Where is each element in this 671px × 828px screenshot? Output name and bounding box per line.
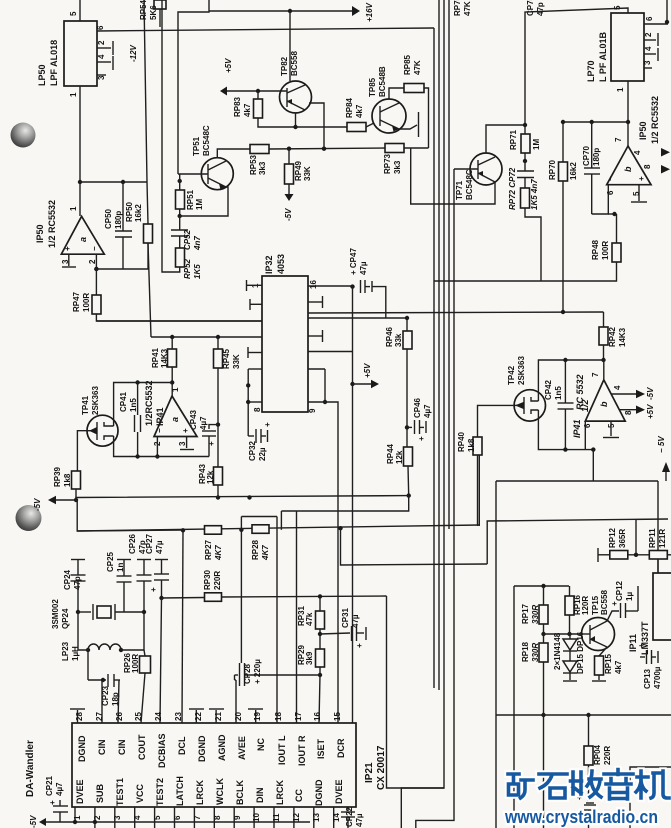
wire IOUTL row <box>241 516 277 518</box>
svg-text:LPF AL018: LPF AL018 <box>49 40 59 86</box>
svg-text:16k2: 16k2 <box>569 162 578 180</box>
svg-text:22µ: 22µ <box>258 447 267 461</box>
resistor RP72 <box>521 188 530 208</box>
supply arrow pin4 IP50b <box>661 148 670 157</box>
resistor RP83 <box>254 99 263 118</box>
pin6 stub LP70 <box>644 23 668 25</box>
wire -5V row <box>56 499 76 501</box>
svg-text:TP82: TP82 <box>280 56 289 76</box>
svg-text:−: − <box>155 428 164 433</box>
svg-text:CX 20017: CX 20017 <box>376 745 387 790</box>
svg-text:BC548B: BC548B <box>378 66 387 97</box>
inductor LP23 1uH <box>86 648 90 652</box>
resistor RP11 <box>649 551 667 560</box>
wire from RP54 down <box>159 9 161 27</box>
svg-text:28: 28 <box>75 712 84 721</box>
wire +16V rail <box>209 10 352 12</box>
svg-text:100R: 100R <box>82 293 91 312</box>
svg-text:TP71: TP71 <box>455 180 464 200</box>
wire IP32 pin11 row to RP46 <box>308 317 407 319</box>
wire pin5 LP50 to top edge <box>79 0 81 21</box>
svg-text:47k: 47k <box>305 612 314 626</box>
resistor RP70 <box>559 162 568 181</box>
transistor TP82 BC558 <box>280 81 312 113</box>
svg-text:10: 10 <box>252 813 261 822</box>
svg-text:LATCH: LATCH <box>175 776 185 806</box>
svg-text:3: 3 <box>97 75 106 80</box>
wire source TP41 <box>114 436 209 457</box>
resistor RP71 <box>521 134 530 153</box>
svg-text:RP18: RP18 <box>521 641 530 662</box>
svg-text:7: 7 <box>591 372 600 377</box>
pin4 wire IP32 left row <box>151 336 262 338</box>
svg-text:TP41: TP41 <box>81 395 90 415</box>
wire rail column left of power section <box>513 586 515 828</box>
wire feedback node IP50b <box>561 121 628 123</box>
svg-text:+5V: +5V <box>363 363 372 378</box>
pin 2 stub LP50 <box>97 47 111 49</box>
svg-text:RP48: RP48 <box>591 239 600 260</box>
wire RP52 bottom to net column <box>162 0 180 272</box>
wire emitter TP82 <box>295 113 297 127</box>
svg-text:CP46: CP46 <box>413 397 422 418</box>
svg-text:BC548C: BC548C <box>202 125 211 156</box>
svg-text:TP42: TP42 <box>507 365 516 385</box>
svg-text:b: b <box>623 166 633 172</box>
svg-text:5: 5 <box>69 11 78 16</box>
svg-text:24: 24 <box>154 712 163 721</box>
svg-text:+: + <box>637 643 646 648</box>
svg-text:RP85: RP85 <box>403 54 412 75</box>
capacitor CP21 4u7 <box>59 812 61 822</box>
svg-text:5: 5 <box>153 815 162 820</box>
svg-text:+: + <box>63 246 72 251</box>
svg-text:CP12: CP12 <box>615 580 624 601</box>
svg-text:+: + <box>637 176 646 181</box>
svg-text:AVEE: AVEE <box>237 736 247 760</box>
op-amp IP41 half a <box>154 396 197 437</box>
op-amp IP41 half b <box>585 380 625 421</box>
svg-text:BC558: BC558 <box>600 590 609 615</box>
svg-text:+5V: +5V <box>224 58 233 73</box>
svg-text:180p: 180p <box>592 148 601 166</box>
svg-text:CP21: CP21 <box>45 775 54 796</box>
svg-text:CP52: CP52 <box>183 229 192 250</box>
wire base TP15 <box>582 633 590 635</box>
wire pin6 LP50 long horizontal to bus <box>97 28 434 31</box>
svg-text:23: 23 <box>174 712 183 721</box>
svg-text:DP15 DP16: DP15 DP16 <box>576 631 585 674</box>
wire base TP71 <box>454 168 478 170</box>
svg-text:17: 17 <box>294 712 303 721</box>
+5V arrow feed TP82 <box>220 87 227 96</box>
watermark chinese characters <box>508 770 669 800</box>
resistor RP15 <box>595 656 604 675</box>
svg-text:RP53: RP53 <box>249 154 258 175</box>
svg-text:CP75: CP75 <box>526 0 535 16</box>
supply arrow pin8 IP41b <box>619 409 636 411</box>
svg-text:1/2 RC5532: 1/2 RC5532 <box>47 200 57 248</box>
resistor RP52 <box>176 248 185 267</box>
svg-text:RP52: RP52 <box>183 258 192 279</box>
capacitor CP46 4u7 <box>407 426 412 428</box>
capacitor CP72 <box>517 170 534 172</box>
svg-text:19: 19 <box>253 712 262 721</box>
svg-text:5: 5 <box>613 5 622 10</box>
op-amp IP50 half a <box>61 216 104 254</box>
svg-text:3SM002: 3SM002 <box>51 599 60 629</box>
wire collector TP82 <box>309 103 324 149</box>
punch hole top <box>11 123 36 148</box>
svg-text:1M: 1M <box>195 199 204 210</box>
svg-text:RP28: RP28 <box>251 539 260 560</box>
svg-text:LRCK: LRCK <box>275 780 285 805</box>
svg-text:47p: 47p <box>138 540 147 554</box>
svg-text:CP50: CP50 <box>104 208 113 229</box>
svg-text:4µ7: 4µ7 <box>423 404 432 418</box>
resistor RP26 <box>140 656 151 673</box>
svg-text:4053: 4053 <box>276 254 286 274</box>
bottom pin9 <box>233 807 235 828</box>
svg-text:IP50: IP50 <box>35 224 45 243</box>
svg-text:120R: 120R <box>581 596 590 615</box>
svg-text:LRCK: LRCK <box>195 780 205 805</box>
bottom pin13 <box>313 807 315 828</box>
wire pin18 up to IOUTL row <box>276 517 278 724</box>
bottom pin6 <box>174 807 176 828</box>
diode DP15 1N4148 <box>563 639 577 650</box>
svg-text:IP41: IP41 <box>572 419 582 438</box>
svg-text:IOUT L: IOUT L <box>277 735 287 765</box>
svg-text:IP32: IP32 <box>264 255 274 274</box>
svg-text:RP75: RP75 <box>453 0 462 16</box>
svg-text:1: 1 <box>69 206 78 211</box>
ground pin5 IP41b <box>610 421 612 436</box>
resistor RP49 <box>285 164 294 184</box>
+16V arrow <box>352 6 360 16</box>
pin6 loop stub IP32 <box>248 368 262 370</box>
svg-text:VCC: VCC <box>135 783 145 803</box>
svg-text:BCLK: BCLK <box>235 780 245 805</box>
svg-text:9: 9 <box>308 408 317 413</box>
svg-text:9: 9 <box>233 815 242 820</box>
op-amp IP50 half b <box>607 146 651 185</box>
supply arrow pin4 IP41b <box>611 393 636 395</box>
svg-text:CIN: CIN <box>97 740 107 756</box>
svg-text:TP85: TP85 <box>368 77 377 97</box>
svg-text:4K7: 4K7 <box>214 545 223 561</box>
resistor RP31 <box>316 611 325 629</box>
svg-text:220R: 220R <box>603 746 612 765</box>
svg-text:RP70: RP70 <box>548 159 557 180</box>
wire RP30 row <box>162 597 205 600</box>
regulator IP11 LM337T box <box>653 573 671 640</box>
svg-text:DGND: DGND <box>314 779 324 806</box>
resistor RP04 <box>584 746 593 765</box>
svg-text:RP12: RP12 <box>608 527 617 548</box>
svg-text:DCBIAS: DCBIAS <box>157 733 167 768</box>
filter block LP70 AL018 <box>611 13 644 81</box>
svg-text:TP15: TP15 <box>591 595 600 615</box>
wire pin27 up <box>101 680 103 723</box>
svg-text:16: 16 <box>313 712 322 721</box>
svg-text:SUB: SUB <box>95 783 105 803</box>
T bar RP12 left <box>597 548 599 562</box>
svg-text:RP83: RP83 <box>233 96 242 117</box>
resistor RP73 <box>385 144 404 153</box>
svg-text:CP31: CP31 <box>341 607 350 628</box>
pin 4 stub LP50 <box>97 61 111 63</box>
svg-text:1µ: 1µ <box>625 592 634 601</box>
svg-text:365R: 365R <box>618 529 627 548</box>
resistor RP48 <box>612 243 621 262</box>
wire LP23 left down to CP23 row <box>87 650 89 680</box>
bottom pin8 <box>213 807 215 828</box>
pin2 stub IP32 <box>250 303 262 305</box>
svg-text:www.crystalradio.cn: www.crystalradio.cn <box>504 807 658 827</box>
svg-text:CP70: CP70 <box>582 145 591 166</box>
svg-text:100R: 100R <box>601 241 610 260</box>
-5V arrow bottom left <box>39 818 46 826</box>
bus wire vertical 4 <box>416 169 454 828</box>
svg-text:4k7: 4k7 <box>614 660 623 674</box>
wire crystal node down to LP23 <box>78 612 88 650</box>
svg-text:− 5V: − 5V <box>657 436 666 453</box>
svg-text:5K6: 5K6 <box>149 5 158 20</box>
ground under RP15 <box>592 680 606 682</box>
wire upper right branch row <box>496 480 658 482</box>
wire -5V branch down to 4K7 row <box>77 500 183 531</box>
svg-text:4K7: 4K7 <box>261 545 270 561</box>
svg-text:-12V: -12V <box>129 44 138 62</box>
svg-text:+: + <box>610 601 619 606</box>
capacitor CP31 47u <box>320 633 350 634</box>
pin21 stub and bar <box>215 710 217 723</box>
svg-text:1k8: 1k8 <box>63 473 72 487</box>
wire base TP51 <box>178 173 208 175</box>
resistor RP45 <box>214 349 223 368</box>
vertical net left feedback column <box>144 0 147 182</box>
resistor RP54 top edge <box>154 0 166 9</box>
wire adj row <box>496 714 671 716</box>
svg-text:4µ7: 4µ7 <box>199 416 208 430</box>
svg-text:1/2RC5532: 1/2RC5532 <box>144 380 154 426</box>
transistor TP71 BC548C <box>470 153 502 185</box>
capacitor CP42 1n5 <box>564 360 566 403</box>
svg-text:4: 4 <box>133 815 142 820</box>
svg-text:DGND: DGND <box>197 735 207 762</box>
wire gate TP41 to RP39 <box>77 431 88 471</box>
wire pin1 LP50 down to node A <box>79 86 81 216</box>
resistor RP17 <box>539 605 548 624</box>
svg-text:18: 18 <box>274 712 283 721</box>
+5V column and arrow <box>352 287 354 723</box>
pin9 stub IP32 <box>308 401 325 403</box>
svg-text:4µ7: 4µ7 <box>55 782 64 796</box>
wire drain TP42 <box>538 360 603 401</box>
capacitor CP26 47p column <box>137 559 151 561</box>
svg-text:TEST2: TEST2 <box>155 778 165 806</box>
wire emitter TP15 to RP15 <box>599 647 607 656</box>
pin10 loop stub IP32 <box>308 368 325 370</box>
svg-text:20: 20 <box>234 712 243 721</box>
svg-text:BC548C: BC548C <box>465 169 474 200</box>
svg-text:RP42: RP42 <box>608 326 617 347</box>
resistor RP41 <box>168 349 177 367</box>
wire collector TP51 <box>217 149 250 158</box>
svg-text:2: 2 <box>88 259 97 264</box>
svg-text:+: + <box>417 436 426 441</box>
svg-text:RP41: RP41 <box>151 347 160 368</box>
transistor TP51 BC548C <box>201 158 233 190</box>
svg-text:330R: 330R <box>531 605 540 624</box>
pin28 stub and tie bar <box>77 710 79 723</box>
transistor TP41 2SK363 <box>87 415 118 446</box>
wire 4K7 row <box>77 525 479 531</box>
svg-text:6: 6 <box>96 25 105 30</box>
svg-text:7: 7 <box>193 815 202 820</box>
svg-text:CP26: CP26 <box>128 533 137 554</box>
bottom pin7 <box>193 807 195 828</box>
svg-text:RP72 CP72: RP72 CP72 <box>508 167 517 210</box>
resistor RP53 <box>250 145 269 154</box>
bottom pin4 <box>134 807 136 828</box>
wire pin2 IP50a down <box>95 254 97 269</box>
svg-text:L PF AL01B: L PF AL01B <box>598 31 608 82</box>
svg-text:LM337T: LM337T <box>640 621 650 655</box>
capacitor CP70 <box>591 122 593 168</box>
bus wire vertical 1 <box>433 28 435 688</box>
wire RP53 to RP73 row <box>269 148 385 149</box>
ground pin3 IP41a <box>186 437 188 449</box>
svg-text:LP23: LP23 <box>61 641 70 661</box>
svg-text:RP39: RP39 <box>53 466 62 487</box>
svg-text:DA-Wandler: DA-Wandler <box>25 740 36 797</box>
wire pin17 up to IOUTR row <box>296 511 298 723</box>
ground at pin3 IP50a <box>68 254 70 266</box>
svg-text:3k3: 3k3 <box>393 160 402 174</box>
bottom pin12 <box>293 807 295 828</box>
svg-text:CC: CC <box>294 789 304 802</box>
svg-text:−: − <box>90 246 99 251</box>
resistor RP12 <box>610 551 628 560</box>
svg-text:CP13: CP13 <box>643 668 652 689</box>
svg-text:IP41: IP41 <box>155 407 165 426</box>
svg-text:DIN: DIN <box>255 788 265 804</box>
capacitor CP13 4700u <box>640 656 645 658</box>
svg-text:12k: 12k <box>395 450 404 464</box>
svg-text:2SK363: 2SK363 <box>91 386 100 415</box>
svg-text:33K: 33K <box>303 166 312 181</box>
svg-text:b: b <box>599 401 609 407</box>
pin5 stub IP32 <box>248 352 262 354</box>
wire output node IP41b down <box>592 450 594 481</box>
wire pin23 up to 4K7 row <box>182 530 183 723</box>
svg-text:DVEE: DVEE <box>334 779 344 804</box>
svg-text:14: 14 <box>332 813 341 822</box>
wire RP30 row down around to IC right <box>387 596 445 788</box>
bottom pin11 <box>273 807 275 828</box>
svg-text:47µ: 47µ <box>155 540 164 554</box>
wire gate TP42 to RP40 <box>478 405 515 437</box>
wire pin2 IP41a down <box>156 437 158 457</box>
transistor TP85 BC548B <box>372 99 406 133</box>
svg-text:3: 3 <box>643 60 652 65</box>
svg-text:RP30: RP30 <box>203 569 212 590</box>
ground emitter TP85 <box>399 125 417 129</box>
svg-text:DCR: DCR <box>336 738 346 758</box>
punch hole bottom <box>16 505 42 531</box>
svg-text:33k: 33k <box>394 333 403 347</box>
wire pin26 up <box>118 680 119 723</box>
svg-text:33K: 33K <box>232 354 241 369</box>
svg-text:47µ: 47µ <box>355 813 364 827</box>
svg-text:2SK363: 2SK363 <box>517 356 526 385</box>
pin19 stub and bar <box>255 710 257 723</box>
svg-text:21: 21 <box>214 712 223 721</box>
pin3 stub LP70 <box>644 67 652 69</box>
capacitor CP28 220u <box>240 530 242 663</box>
wire pin20 up to CP28 <box>235 680 237 723</box>
capacitor CP27 47u column <box>155 559 168 561</box>
svg-text:RC 5532: RC 5532 <box>575 374 585 410</box>
svg-text:3: 3 <box>178 441 187 446</box>
diode DP16 1N4148 <box>563 661 577 672</box>
svg-text:16k2: 16k2 <box>134 204 143 222</box>
svg-text:47K: 47K <box>413 60 422 75</box>
svg-text:DCL: DCL <box>177 736 187 755</box>
svg-text:RP40: RP40 <box>457 431 466 452</box>
pin2 stub LP70 <box>644 39 656 41</box>
svg-text:CP32: CP32 <box>248 440 257 461</box>
svg-text:2: 2 <box>97 40 106 45</box>
svg-text:-5V: -5V <box>284 208 293 221</box>
resistor RP30 <box>205 593 222 602</box>
bus wire vertical 2 with U turn <box>401 0 444 828</box>
wire node up to rail row <box>635 519 637 555</box>
wire corner box bottom right <box>630 767 671 828</box>
svg-text:COUT: COUT <box>137 734 147 760</box>
capacitor CP05 <box>586 802 594 804</box>
svg-text:CP25: CP25 <box>106 551 115 572</box>
svg-text:RP47: RP47 <box>72 291 81 312</box>
svg-text:1: 1 <box>171 387 180 392</box>
pin4 stub LP70 <box>644 53 656 55</box>
resistor RP18 <box>539 643 548 662</box>
svg-text:CIN: CIN <box>117 740 127 756</box>
pin13 stub IP32 <box>308 335 323 337</box>
resistor RP51 <box>176 190 185 209</box>
capacitor CP43 4u7 <box>209 425 218 429</box>
svg-text:14K3: 14K3 <box>618 327 627 347</box>
bus wire vertical 1b <box>438 0 440 690</box>
bus wire vertical 3 with U turn <box>448 0 450 529</box>
svg-text:RP17: RP17 <box>521 603 530 624</box>
wire collector TP15 to CP12 <box>607 611 619 621</box>
resistor RP27 <box>205 526 222 535</box>
wire source TP42 <box>538 410 595 450</box>
svg-text:1n5: 1n5 <box>129 398 138 412</box>
svg-text:47K: 47K <box>463 1 472 16</box>
capacitor CP25 1n column <box>117 559 131 561</box>
svg-text:6: 6 <box>606 190 615 195</box>
svg-text:4: 4 <box>613 385 622 390</box>
svg-text:+5V: +5V <box>646 404 655 419</box>
svg-text:14K3: 14K3 <box>160 348 169 368</box>
svg-text:1k8: 1k8 <box>467 438 476 452</box>
svg-text:4: 4 <box>97 54 106 59</box>
svg-text:AGND: AGND <box>217 734 227 761</box>
